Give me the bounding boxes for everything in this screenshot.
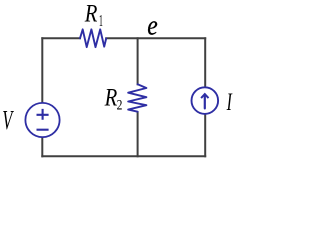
svg-text:I: I xyxy=(226,87,233,116)
svg-text:V: V xyxy=(2,105,14,135)
svg-text:1: 1 xyxy=(99,11,103,30)
svg-text:e: e xyxy=(147,10,157,41)
svg-text:2: 2 xyxy=(117,96,123,113)
svg-text:R: R xyxy=(104,84,118,111)
svg-text:R: R xyxy=(84,0,98,27)
